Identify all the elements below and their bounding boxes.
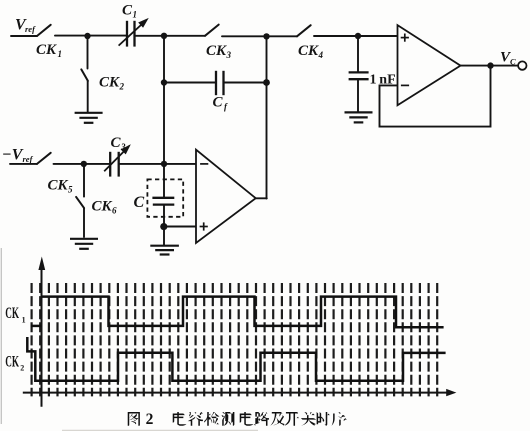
svg-text:C: C — [111, 135, 122, 151]
svg-text:2: 2 — [20, 363, 24, 372]
svg-text:ref: ref — [25, 24, 36, 34]
svg-text:6: 6 — [112, 206, 117, 216]
svg-text:CK: CK — [92, 199, 113, 215]
svg-text:1: 1 — [133, 10, 138, 20]
svg-text:C: C — [510, 57, 516, 67]
svg-text:C: C — [134, 194, 145, 211]
svg-text:2: 2 — [119, 82, 125, 92]
svg-text:4: 4 — [318, 50, 324, 60]
svg-text:CK: CK — [48, 178, 69, 194]
svg-text:ref: ref — [23, 154, 34, 164]
svg-text:CK: CK — [36, 42, 57, 58]
svg-text:−V: −V — [2, 147, 24, 164]
svg-text:3: 3 — [226, 50, 232, 60]
svg-text:2: 2 — [146, 411, 154, 428]
svg-text:CK: CK — [5, 354, 19, 371]
svg-text:CK: CK — [206, 43, 227, 59]
svg-text:5: 5 — [68, 185, 73, 195]
svg-text:CK: CK — [298, 43, 319, 59]
svg-text:CK: CK — [99, 75, 120, 91]
svg-text:1: 1 — [22, 315, 26, 324]
svg-text:C: C — [213, 95, 224, 111]
svg-text:1 nF: 1 nF — [370, 73, 396, 88]
svg-text:C: C — [122, 3, 133, 19]
svg-text:CK: CK — [5, 305, 19, 322]
svg-text:1: 1 — [58, 49, 63, 59]
svg-text:3: 3 — [120, 142, 126, 152]
